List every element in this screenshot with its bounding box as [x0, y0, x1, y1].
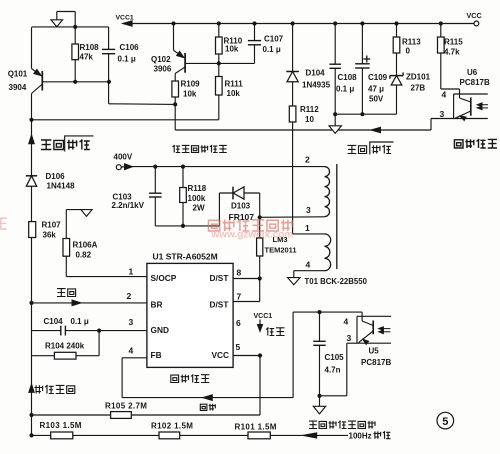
svg-text:10k: 10k — [225, 45, 239, 54]
resistor R111 — [218, 63, 220, 76]
svg-text:27B: 27B — [411, 84, 426, 93]
node on top-left wire — [73, 25, 77, 29]
resistor R105 — [111, 412, 132, 419]
wire Q102 base — [186, 62, 255, 64]
svg-text:10k: 10k — [227, 89, 241, 98]
pin 2 wire BR — [32, 302, 147, 304]
diode D106 — [26, 175, 37, 177]
wire protect line to U6 — [175, 129, 431, 131]
svg-text:4: 4 — [306, 260, 311, 270]
svg-text:R118: R118 — [188, 184, 207, 193]
pin 7 stub D/ST — [233, 301, 260, 303]
node drain — [258, 215, 262, 219]
transformer core — [336, 164, 338, 269]
svg-text:0.1 μ: 0.1 μ — [71, 317, 89, 326]
svg-text:2W: 2W — [193, 204, 205, 213]
resistor R112 — [289, 106, 296, 122]
svg-text:R109: R109 — [181, 80, 201, 89]
svg-text:400V: 400V — [114, 153, 133, 162]
wire C106 to R109 bottom — [109, 103, 176, 106]
svg-text:100k: 100k — [188, 194, 206, 203]
circled number 5 — [437, 412, 454, 429]
svg-text:8: 8 — [237, 268, 242, 278]
svg-text:4.7n: 4.7n — [325, 366, 341, 375]
svg-text:VCC1: VCC1 — [116, 14, 134, 21]
resistor R104 — [32, 355, 55, 357]
ground T01 — [288, 278, 300, 285]
watermark — [209, 219, 294, 231]
svg-text:C104: C104 — [44, 317, 64, 326]
ground top-left — [74, 12, 76, 27]
wire VCC filter ground bus — [335, 113, 396, 115]
resistor R115 — [440, 24, 442, 38]
transistor Q102 — [173, 24, 175, 51]
resistor R109 — [172, 81, 179, 97]
pin 5 stub VCC — [233, 355, 260, 357]
svg-text:www.gzweix.com: www.gzweix.com — [211, 229, 294, 240]
pin 4 stub FB — [122, 357, 147, 359]
svg-text:R115: R115 — [444, 38, 463, 47]
resistor R107 — [29, 222, 36, 238]
label protect-normal right — [348, 145, 367, 154]
capacitor C107 — [254, 24, 256, 41]
IC U1 STR-A6052M — [147, 263, 233, 367]
svg-text:3: 3 — [440, 109, 445, 119]
capacitor C105 — [319, 312, 321, 341]
svg-text:Q102: Q102 — [151, 55, 171, 64]
svg-text:R102 1.5M: R102 1.5M — [151, 422, 193, 431]
svg-text:C106: C106 — [120, 43, 140, 52]
svg-text:S/OCP: S/OCP — [151, 273, 177, 283]
svg-text:GND: GND — [151, 325, 169, 335]
svg-text:3906: 3906 — [154, 65, 172, 74]
transformer T01 primary winding — [325, 167, 330, 217]
svg-text:FR107: FR107 — [229, 212, 255, 222]
svg-text:ZD101: ZD101 — [406, 73, 431, 82]
svg-text:VCC: VCC — [212, 350, 230, 360]
pin 3 wire GND — [32, 330, 61, 332]
svg-text:VCC: VCC — [467, 11, 482, 20]
svg-text:1N4935: 1N4935 — [302, 81, 331, 90]
svg-text:R106A: R106A — [73, 241, 98, 250]
svg-text:R113: R113 — [402, 38, 421, 47]
svg-text:U1 STR-A6052M: U1 STR-A6052M — [153, 252, 218, 262]
svg-text:3: 3 — [347, 333, 352, 343]
svg-text:0.1 μ: 0.1 μ — [118, 55, 136, 64]
svg-text:7: 7 — [237, 291, 242, 301]
svg-text:3: 3 — [129, 317, 134, 327]
svg-text:50V: 50V — [369, 95, 384, 104]
svg-text:R107: R107 — [42, 221, 62, 230]
svg-text:FB: FB — [151, 350, 162, 360]
svg-text:1: 1 — [305, 223, 310, 233]
svg-text:T01 BCK-22B550: T01 BCK-22B550 — [305, 277, 368, 286]
pin 8 stub D/ST — [233, 278, 260, 280]
svg-text:2: 2 — [127, 291, 132, 301]
svg-text:5: 5 — [442, 416, 448, 428]
diode D103 — [218, 193, 220, 226]
svg-text:U6: U6 — [467, 68, 478, 77]
svg-text:PC817B: PC817B — [361, 358, 391, 367]
transformer aux winding — [325, 234, 331, 271]
label protect-normal left — [41, 139, 64, 149]
svg-text:R112: R112 — [300, 105, 319, 114]
svg-text:5: 5 — [236, 342, 241, 352]
wire Q101 base — [43, 81, 109, 83]
svg-text:TEM2011: TEM2011 — [265, 246, 297, 255]
resistor R106A — [65, 256, 67, 276]
wire top-left horizontal — [32, 26, 109, 28]
rail junction nodes — [171, 21, 175, 25]
zener diode ZD101 — [390, 75, 403, 77]
svg-text:VCC1: VCC1 — [254, 313, 273, 320]
resistor R113 — [396, 24, 398, 38]
svg-text:4: 4 — [442, 90, 447, 100]
svg-text:47 μ: 47 μ — [368, 85, 384, 94]
inductor LM3 — [259, 217, 261, 238]
wire protection node horizontal — [32, 119, 219, 121]
svg-text:D106: D106 — [46, 172, 66, 181]
ground below C105 — [319, 396, 321, 407]
svg-text:6: 6 — [236, 318, 241, 328]
wire U5 pin3 to ground node — [347, 342, 357, 344]
resistor R118 — [182, 167, 184, 188]
svg-text:Q101: Q101 — [8, 70, 28, 79]
svg-text:36k: 36k — [43, 231, 57, 240]
wire R109-bottom down to protect line — [174, 104, 176, 130]
wire VCC1 top rail — [123, 23, 474, 25]
svg-text:R101 1.5M: R101 1.5M — [235, 423, 277, 432]
wire feedback up — [292, 312, 294, 398]
svg-text:C109: C109 — [368, 73, 388, 82]
label protect bottom — [57, 288, 76, 296]
label from mains rectifier — [309, 421, 376, 429]
label regulation — [200, 404, 216, 411]
resistor R108 — [74, 27, 76, 44]
wire 400V to transformer pin2 — [128, 166, 325, 168]
label protect optocoupler — [454, 139, 497, 148]
resistor R103 — [51, 432, 73, 439]
svg-text:1N4148: 1N4148 — [47, 182, 76, 191]
svg-text:2: 2 — [305, 155, 310, 165]
optocoupler U5 — [356, 316, 358, 343]
svg-text:10: 10 — [305, 115, 314, 124]
svg-text:PC817B: PC817B — [460, 78, 490, 87]
svg-text:R103 1.5M: R103 1.5M — [40, 421, 82, 430]
resistor R102 — [159, 432, 180, 439]
wire R105 line — [32, 414, 261, 416]
svg-text:C107: C107 — [264, 35, 284, 44]
wire FB to feedback node — [121, 358, 123, 398]
wire bottom rail — [32, 434, 303, 436]
VCC terminal top right — [474, 21, 479, 26]
svg-text:0: 0 — [406, 47, 411, 56]
svg-text:4.7k: 4.7k — [444, 48, 460, 57]
svg-text:0.1 μ: 0.1 μ — [336, 85, 354, 94]
svg-text:47k: 47k — [80, 52, 94, 61]
transistor Q101 — [31, 27, 33, 68]
svg-text:0.82: 0.82 — [76, 251, 92, 260]
capacitor C106 — [108, 27, 110, 50]
svg-text:R111: R111 — [225, 80, 244, 89]
wire VCC pin down to R105 line — [259, 356, 261, 416]
svg-text:U5: U5 — [369, 347, 380, 356]
label mains detect — [29, 384, 34, 392]
svg-text:4: 4 — [344, 317, 349, 327]
svg-text:1: 1 — [129, 267, 134, 277]
resistor R110 — [218, 24, 220, 38]
svg-text:R108: R108 — [80, 43, 100, 52]
svg-text:4: 4 — [129, 346, 134, 356]
wire pin1 of transformer — [293, 233, 325, 235]
label overvoltage protection circuit — [173, 145, 227, 153]
wire left vertical — [31, 94, 33, 436]
capacitor C104 — [60, 326, 62, 336]
optocoupler U6 — [441, 88, 460, 90]
wire drain node to transformer pin3 — [260, 216, 325, 219]
capacitor C108 — [334, 24, 336, 65]
svg-text:0.1 μ: 0.1 μ — [263, 45, 281, 54]
label thick-film circuit — [171, 374, 210, 382]
svg-text:100Hz: 100Hz — [349, 432, 372, 441]
arrow up on left wire — [29, 135, 35, 144]
svg-text:R105 2.7M: R105 2.7M — [105, 402, 147, 411]
capacitor C109 polarized — [361, 24, 363, 64]
ground below C108 — [334, 114, 336, 126]
svg-text:3: 3 — [306, 205, 311, 215]
pin 1 stub — [66, 276, 147, 278]
svg-text:2.2n/1kV: 2.2n/1kV — [112, 201, 145, 210]
wire pin4 to ground — [294, 270, 325, 272]
svg-text:3904: 3904 — [9, 83, 27, 92]
capacitor C103 — [154, 167, 156, 194]
diode D104 — [292, 24, 294, 72]
svg-text:D103: D103 — [231, 202, 251, 211]
svg-text:C105: C105 — [325, 353, 345, 362]
svg-text:D/ST: D/ST — [210, 300, 229, 310]
svg-text:C108: C108 — [338, 73, 358, 82]
svg-text:10k: 10k — [183, 90, 197, 99]
wire snubber bottom — [155, 225, 219, 227]
resistor R101 — [248, 432, 270, 439]
svg-text:D104: D104 — [306, 69, 326, 78]
svg-text:R104 240k: R104 240k — [45, 342, 85, 351]
svg-text:BR: BR — [151, 300, 163, 310]
svg-text:D/ST: D/ST — [210, 273, 229, 283]
ground R106A — [81, 210, 92, 217]
